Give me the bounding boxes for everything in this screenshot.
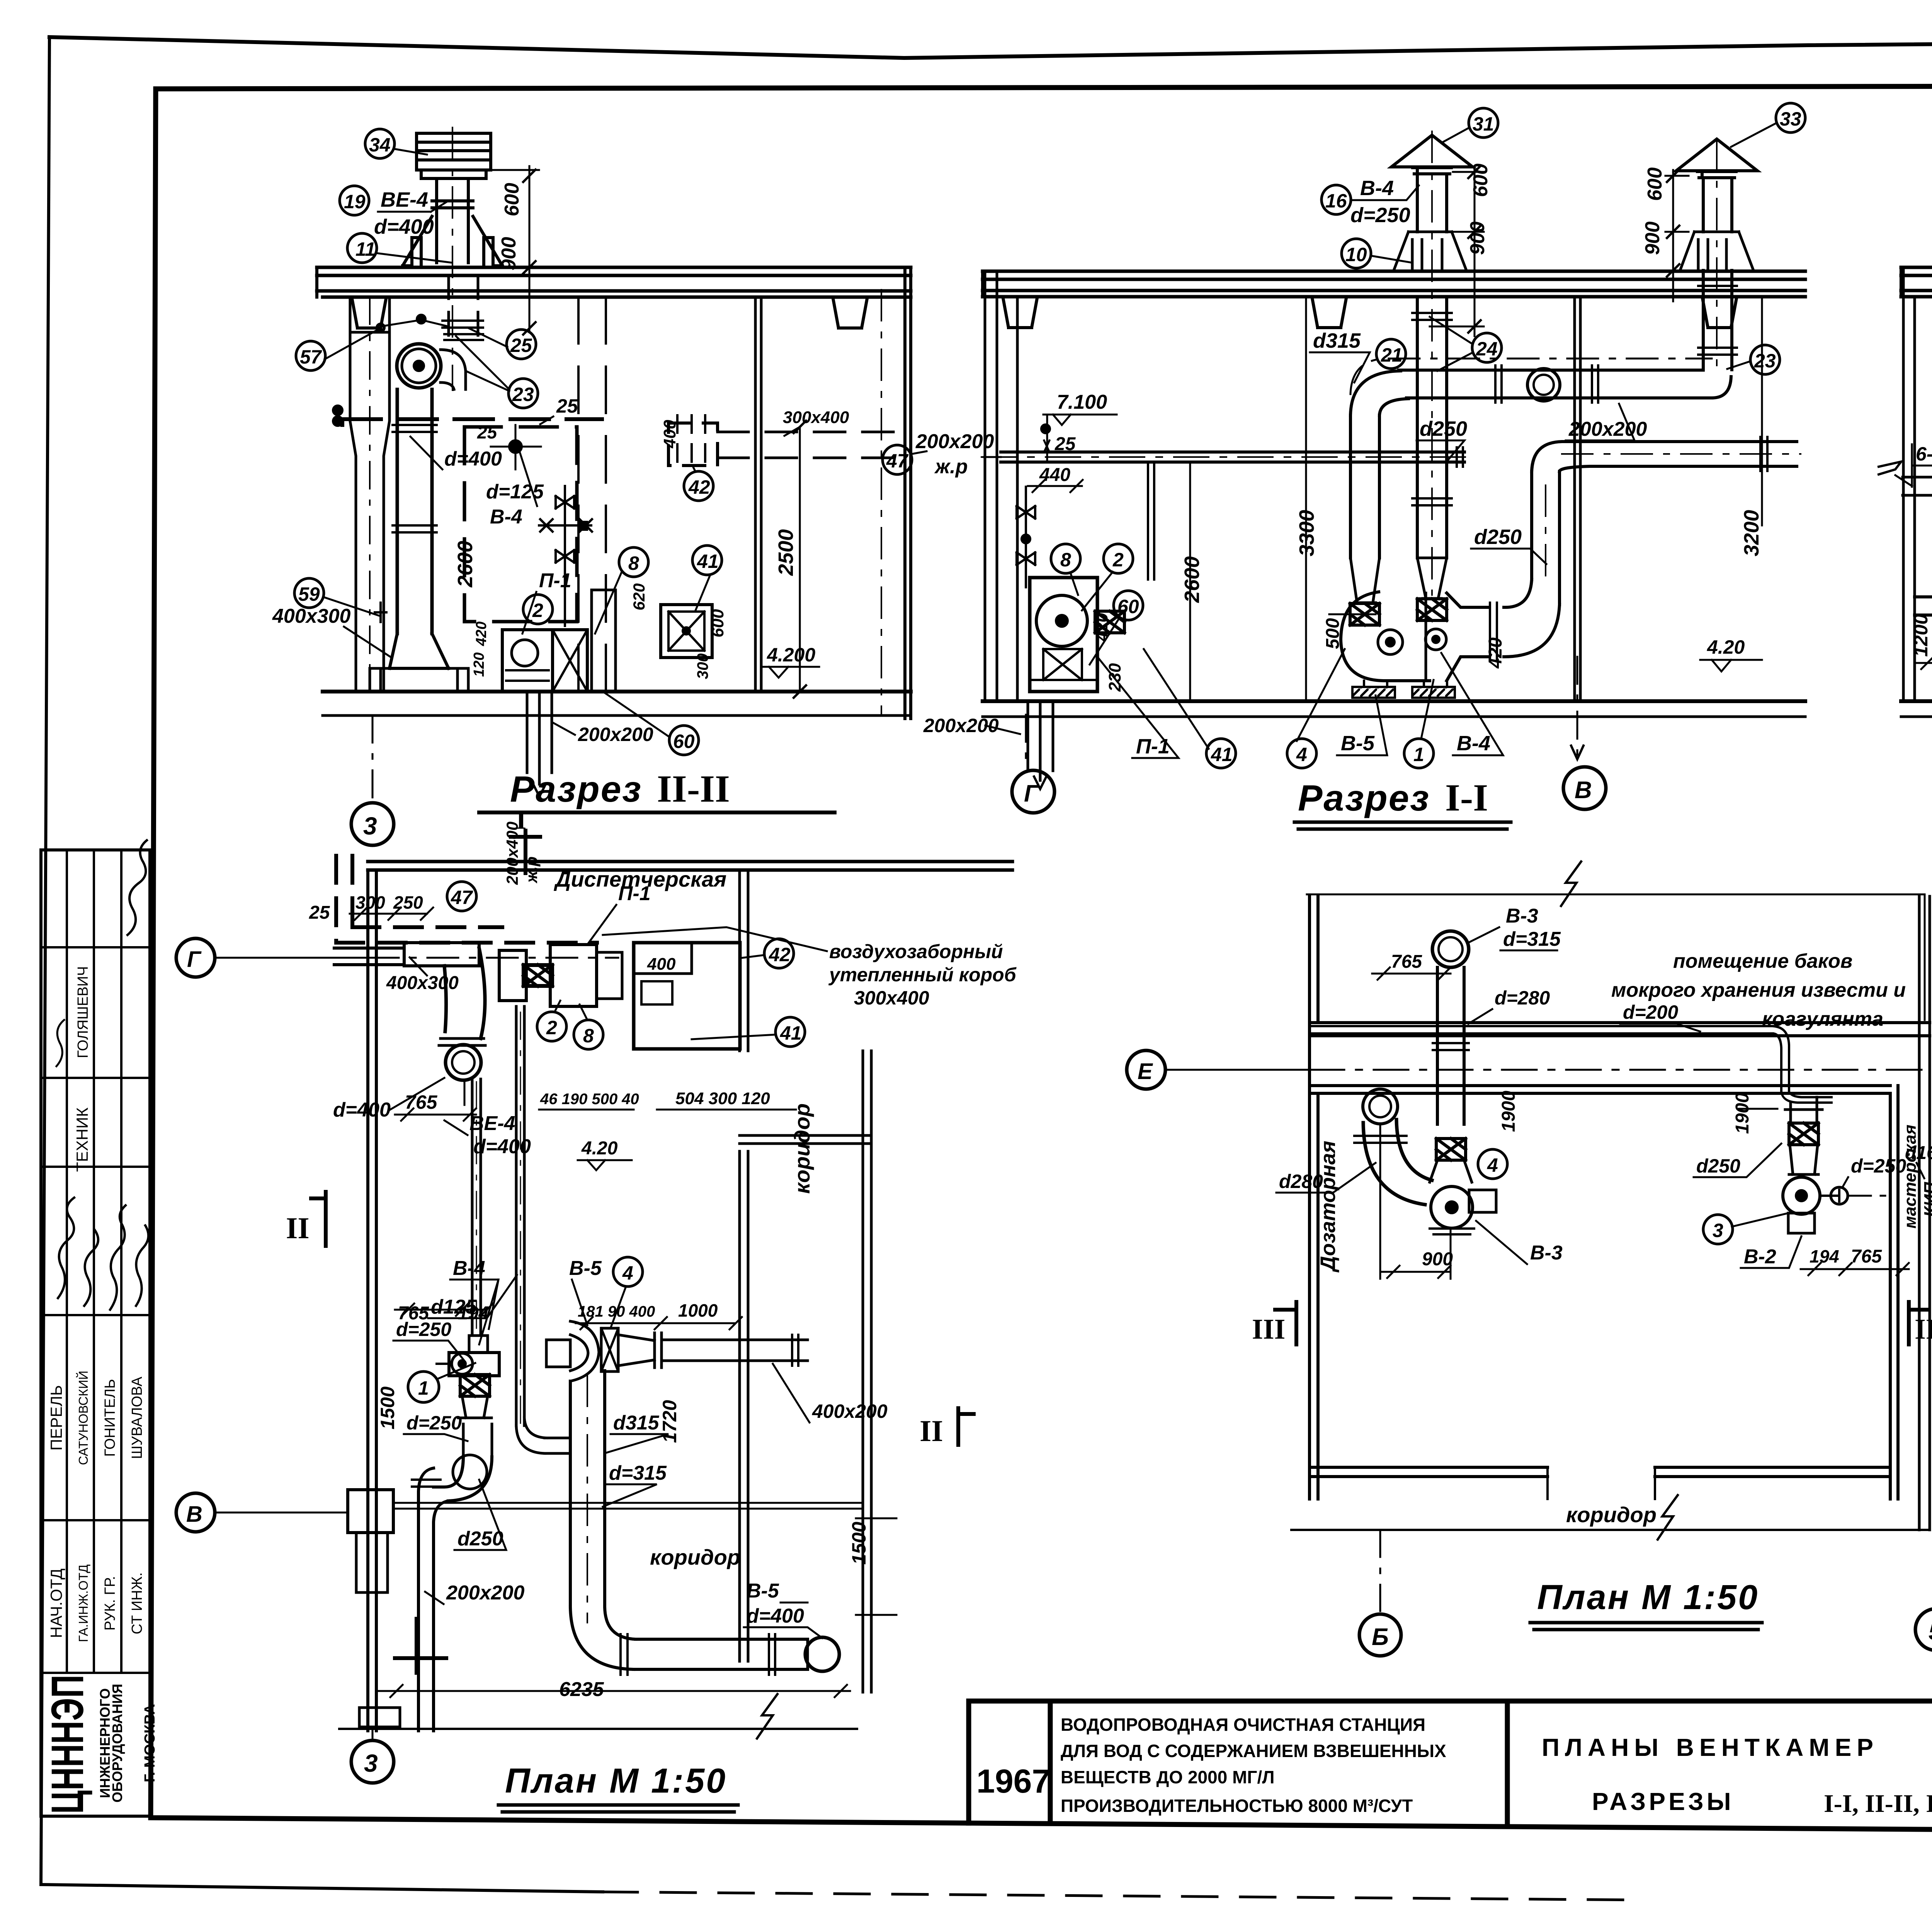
svg-text:В: В	[186, 1502, 202, 1527]
svg-text:III: III	[1915, 1314, 1932, 1345]
sheet outer edge top	[49, 37, 1932, 58]
svg-text:6-500: 6-500	[1916, 443, 1932, 465]
svg-text:ПЕРЕЛЬ: ПЕРЕЛЬ	[47, 1385, 65, 1450]
svg-text:765: 765	[405, 1091, 438, 1113]
stack axes dash-dot	[1432, 131, 1717, 595]
svg-text:420: 420	[1092, 613, 1111, 642]
second riser to BE-4 elbow	[472, 1079, 481, 1335]
900 dim bottom	[1915, 657, 1932, 669]
svg-text:2600: 2600	[454, 541, 477, 588]
callout 10	[1342, 239, 1371, 268]
svg-text:ГА.ИНЖ.ОТД: ГА.ИНЖ.ОТД	[76, 1564, 90, 1642]
svg-text:200x200: 200x200	[446, 1582, 525, 1604]
svg-text:В-4: В-4	[1360, 177, 1394, 200]
duct 200x200 zh.r horizontal	[1001, 452, 1464, 462]
svg-text:600: 600	[1644, 167, 1666, 201]
svg-text:23: 23	[512, 384, 534, 405]
cowl 33 (B-5 d400)	[1676, 139, 1757, 178]
stack of BE-4	[437, 178, 468, 263]
svg-text:d315: d315	[1313, 329, 1361, 352]
roof slab lines	[317, 267, 911, 297]
svg-text:1000: 1000	[678, 1300, 718, 1320]
svg-text:4: 4	[622, 1262, 633, 1284]
G axis	[176, 938, 215, 977]
svg-text:В-4: В-4	[453, 1257, 485, 1280]
svg-text:Б: Б	[1372, 1624, 1389, 1650]
svg-text:300: 300	[694, 653, 711, 679]
dashed chamber rectangle	[464, 427, 577, 622]
dim string right of cowl	[491, 166, 539, 332]
top dim line	[1307, 894, 1925, 896]
d200 pipe elbow right	[1773, 1026, 1789, 1091]
svg-text:Дозаторная: Дозаторная	[1316, 1141, 1340, 1273]
svg-text:400x300: 400x300	[386, 973, 459, 993]
svg-text:В-2: В-2	[1744, 1246, 1776, 1268]
svg-text:3: 3	[1713, 1220, 1723, 1241]
callout 33	[1776, 103, 1805, 133]
bottom cone + base	[389, 634, 449, 668]
svg-text:3300: 3300	[1295, 510, 1318, 556]
svg-text:утепленный короб: утепленный короб	[828, 964, 1017, 986]
svg-text:300x400: 300x400	[783, 408, 849, 427]
svg-text:23: 23	[1754, 350, 1776, 372]
svg-text:400x200: 400x200	[812, 1400, 888, 1422]
svg-text:В-5: В-5	[569, 1257, 602, 1280]
svg-text:I-I: I-I	[1445, 776, 1488, 819]
dim string right of cowl31	[1430, 166, 1484, 336]
svg-text:СТ ИНЖ.: СТ ИНЖ.	[129, 1572, 145, 1634]
svg-text:2: 2	[1112, 549, 1124, 571]
callout 31	[1469, 108, 1498, 138]
svg-text:1900: 1900	[1732, 1093, 1753, 1134]
stamp texts	[47, 966, 145, 1642]
svg-text:41: 41	[780, 1022, 802, 1044]
svg-text:Г: Г	[1024, 780, 1040, 807]
grille 41	[692, 546, 722, 575]
svg-text:765: 765	[1851, 1246, 1882, 1267]
right walls	[1890, 1086, 1898, 1499]
svg-text:31: 31	[1473, 113, 1494, 135]
svg-text:ВЕЩЕСТВ ДО 2000 МГ/Л: ВЕЩЕСТВ ДО 2000 МГ/Л	[1061, 1767, 1275, 1787]
axes	[1025, 715, 1027, 767]
svg-text:4: 4	[1296, 744, 1307, 765]
below floor duct + 200x200	[527, 692, 552, 784]
E axis	[1127, 1050, 1165, 1089]
svg-text:d250: d250	[1420, 417, 1467, 440]
svg-text:d315: d315	[613, 1412, 660, 1434]
callout 16 + B-4 d=250	[1321, 185, 1351, 214]
svg-text:d=400: d=400	[374, 215, 434, 238]
roof slab	[1901, 267, 1932, 297]
svg-text:41: 41	[1211, 744, 1233, 765]
svg-text:I-I, II-II, III-III.: I-I, II-II, III-III.	[1824, 1790, 1932, 1818]
svg-text:1200: 1200	[1910, 614, 1932, 657]
svg-text:НАЧ.ОТД: НАЧ.ОТД	[47, 1569, 65, 1638]
svg-text:В-3: В-3	[1506, 905, 1538, 927]
stamp bottom org cell	[42, 1675, 158, 1814]
svg-text:24: 24	[1476, 338, 1498, 360]
floor	[323, 690, 911, 693]
svg-text:42: 42	[688, 476, 710, 498]
svg-text:Е: Е	[1138, 1059, 1153, 1084]
svg-text:КИП: КИП	[1921, 1181, 1932, 1217]
svg-text:4.20: 4.20	[581, 1138, 618, 1159]
section I mark top	[511, 831, 540, 873]
svg-text:d250: d250	[457, 1528, 503, 1550]
dim verticals	[1190, 297, 1762, 701]
svg-text:ДЛЯ ВОД С СОДЕРЖАНИЕМ ВЗВЕШЕНН: ДЛЯ ВОД С СОДЕРЖАНИЕМ ВЗВЕШЕННЫХ	[1061, 1741, 1446, 1761]
riser tapers/flex B-5	[1350, 558, 1379, 603]
svg-text:46 190 500 40: 46 190 500 40	[540, 1091, 639, 1108]
title block	[969, 1701, 1932, 1834]
svg-text:400: 400	[647, 955, 676, 974]
B-3 duct down	[1437, 967, 1464, 1124]
svg-text:коридор: коридор	[1566, 1502, 1656, 1527]
svg-text:d160: d160	[1905, 1143, 1932, 1163]
svg-text:6235: 6235	[559, 1678, 604, 1701]
B-4 bottom elbow to descending duct	[434, 1457, 492, 1501]
svg-text:В-5: В-5	[747, 1580, 779, 1602]
svg-text:47: 47	[886, 450, 909, 472]
svg-text:25: 25	[477, 422, 498, 442]
B-3 roof stack circles	[1432, 931, 1469, 967]
svg-text:600: 600	[1469, 163, 1492, 197]
fan bases	[1352, 687, 1395, 698]
d125 riser from P-1 down	[516, 1006, 524, 1426]
axes bottom	[1380, 1530, 1932, 1611]
svg-text:ВОДОПРОВОДНАЯ ОЧИСТНАЯ СТАНЦИЯ: ВОДОПРОВОДНАЯ ОЧИСТНАЯ СТАНЦИЯ	[1061, 1715, 1425, 1735]
bottom boundary + break	[339, 1728, 857, 1730]
inner top wall	[1310, 1086, 1890, 1093]
svg-text:П-1: П-1	[539, 569, 571, 592]
svg-text:ТЕХНИК: ТЕХНИК	[73, 1107, 91, 1172]
stamp column grid	[41, 850, 150, 1816]
svg-text:5: 5	[1929, 1618, 1932, 1645]
svg-text:3: 3	[364, 1749, 378, 1777]
svg-text:ж.р: ж.р	[522, 857, 541, 884]
roof T-bracket left	[341, 297, 397, 328]
svg-text:мокрого хранения извести и: мокрого хранения извести и	[1611, 979, 1906, 1001]
svg-text:900: 900	[1641, 221, 1664, 255]
callout 19 + BE-4 d=400	[340, 186, 369, 215]
svg-text:2500: 2500	[774, 529, 798, 576]
svg-text:1900: 1900	[1498, 1091, 1519, 1132]
svg-text:d=250: d=250	[406, 1412, 462, 1434]
svg-text:2600: 2600	[1180, 556, 1204, 603]
left wall	[368, 870, 376, 1731]
svg-text:1: 1	[1413, 744, 1424, 765]
svg-text:19: 19	[344, 191, 366, 212]
svg-text:59: 59	[298, 583, 320, 605]
d250 loop: elbow up then right	[1504, 580, 1560, 657]
svg-text:25: 25	[309, 902, 330, 923]
svg-text:60: 60	[1117, 596, 1139, 617]
svg-text:200x200: 200x200	[915, 430, 994, 453]
section II marks	[311, 1192, 326, 1246]
svg-text:900: 900	[498, 237, 520, 270]
d315 riser down	[570, 1371, 605, 1607]
svg-text:8: 8	[583, 1025, 594, 1047]
P-1 unit	[1030, 578, 1097, 692]
svg-text:181 90 400: 181 90 400	[578, 1303, 655, 1320]
wire from ceiling pt	[381, 320, 448, 326]
left wall / bottom walls	[1310, 896, 1318, 1499]
svg-text:2: 2	[546, 1017, 557, 1038]
callout 34	[365, 129, 395, 158]
svg-text:ГОЛЯШЕВИЧ: ГОЛЯШЕВИЧ	[75, 966, 91, 1058]
svg-text:d=400: d=400	[747, 1605, 804, 1627]
svg-text:420: 420	[473, 622, 490, 646]
below floor duct	[1028, 701, 1053, 780]
roof T-bracket right	[822, 297, 878, 328]
svg-text:4.200: 4.200	[767, 644, 815, 666]
svg-text:21: 21	[1381, 344, 1403, 366]
svg-text:Разрез: Разрез	[510, 769, 642, 810]
svg-text:ОБОРУДОВАНИЯ: ОБОРУДОВАНИЯ	[109, 1684, 125, 1803]
stamp signatures squiggles	[58, 1198, 74, 1298]
svg-text:3: 3	[363, 812, 377, 840]
callouts 57 25 23	[296, 341, 325, 370]
svg-text:П-1: П-1	[618, 882, 651, 905]
svg-text:План М 1:50: План М 1:50	[1537, 1578, 1759, 1617]
B-5 chain right	[546, 1340, 570, 1367]
svg-text:ж.р: ж.р	[934, 455, 968, 478]
svg-text:ШУВАЛОВА: ШУВАЛОВА	[129, 1377, 145, 1459]
svg-text:РУК. ГР.: РУК. ГР.	[102, 1576, 118, 1630]
svg-text:34: 34	[369, 134, 391, 156]
svg-text:Г: Г	[187, 947, 202, 972]
svg-text:d=400: d=400	[333, 1099, 391, 1121]
svg-text:РАЗРЕЗЫ: РАЗРЕЗЫ	[1592, 1788, 1734, 1815]
riser from P-1 to duct	[1148, 462, 1154, 580]
svg-text:300: 300	[355, 892, 385, 913]
floor	[1901, 699, 1932, 703]
svg-text:200x200: 200x200	[578, 724, 653, 745]
partition walls	[578, 297, 606, 692]
P-1 unit plan at top	[499, 950, 526, 1001]
floor	[983, 699, 1805, 703]
svg-text:коридор: коридор	[650, 1545, 740, 1569]
svg-text:16: 16	[1325, 190, 1347, 212]
svg-text:620: 620	[630, 583, 648, 610]
axis 3 circle	[372, 1731, 374, 1740]
svg-text:11: 11	[355, 238, 376, 260]
sheet outer edge left	[41, 37, 49, 1885]
svg-text:ЦНННЭП: ЦНННЭП	[42, 1675, 93, 1814]
B-2 riser elbow + chain	[1785, 1097, 1822, 1123]
svg-text:120: 120	[471, 653, 487, 677]
inner wall at B axis	[1575, 297, 1580, 701]
fan BE4 scroll	[397, 344, 441, 388]
svg-text:d=250: d=250	[1851, 1155, 1906, 1177]
axis 3	[372, 715, 374, 802]
svg-text:420: 420	[1485, 637, 1506, 669]
dim string left of cowl33	[1665, 170, 1689, 301]
svg-text:ПРОИЗВОДИТЕЛЬНОСТЬЮ 8000 М³/СУ: ПРОИЗВОДИТЕЛЬНОСТЬЮ 8000 М³/СУТ	[1061, 1796, 1413, 1816]
svg-text:1720: 1720	[659, 1400, 680, 1443]
corridor walls right	[740, 870, 748, 1661]
svg-text:600: 600	[501, 183, 523, 216]
dashed duct through roof to fan	[449, 275, 478, 342]
svg-text:4: 4	[1487, 1154, 1498, 1176]
main duct d400 down	[397, 389, 432, 634]
svg-text:1: 1	[418, 1377, 429, 1399]
top wall	[368, 862, 1012, 870]
callout 11	[347, 233, 377, 263]
cone skirt on roof	[403, 216, 502, 266]
svg-text:В-4: В-4	[1457, 732, 1490, 755]
svg-text:П-1: П-1	[1136, 735, 1170, 758]
svg-text:504 300 120: 504 300 120	[675, 1089, 770, 1108]
B axis	[176, 1493, 215, 1532]
air chamber rect	[634, 943, 740, 1049]
roof slab	[983, 271, 1805, 297]
svg-text:II-II: II-II	[657, 767, 730, 810]
svg-text:ВЕ-4: ВЕ-4	[381, 188, 428, 211]
svg-text:d250: d250	[1474, 525, 1522, 549]
left flange circle + elbow into fan	[1363, 1089, 1398, 1124]
svg-text:194: 194	[1810, 1246, 1839, 1266]
callouts 21 24 23 on ducts	[1376, 339, 1406, 369]
svg-text:1500: 1500	[848, 1522, 870, 1565]
valves cluster	[564, 486, 566, 626]
svg-text:d=315: d=315	[609, 1462, 667, 1484]
svg-text:47: 47	[451, 887, 473, 908]
callouts bottom	[1051, 544, 1080, 573]
svg-text:2: 2	[532, 600, 543, 621]
47 circle + dims top	[447, 882, 476, 911]
svg-text:41: 41	[697, 551, 719, 572]
svg-text:d=400: d=400	[444, 448, 502, 470]
svg-text:Г. МОСКВА: Г. МОСКВА	[142, 1704, 158, 1783]
svg-text:ГОНИТЕЛЬ: ГОНИТЕЛЬ	[102, 1379, 118, 1456]
column axis dash	[369, 297, 371, 692]
svg-text:В-4: В-4	[490, 506, 522, 528]
svg-text:II: II	[920, 1414, 943, 1448]
fans B-5 B-4	[1341, 592, 1430, 681]
cowl 31 (B-4 d250)	[1391, 135, 1473, 174]
top outer wall + d200 pipe	[1310, 1023, 1930, 1036]
bottom elbow + horizontal to B-5 outlet	[570, 1607, 636, 1669]
svg-text:300x400: 300x400	[854, 987, 929, 1009]
svg-text:33: 33	[1780, 108, 1801, 130]
svg-text:60: 60	[673, 731, 695, 752]
svg-text:57: 57	[300, 346, 322, 368]
svg-text:План М 1:50: План М 1:50	[505, 1762, 727, 1800]
svg-text:помещение баков: помещение баков	[1673, 950, 1852, 972]
svg-text:воздухозаборный: воздухозаборный	[829, 941, 1003, 962]
left column I-beam	[350, 297, 389, 692]
svg-text:В-5: В-5	[1341, 732, 1375, 755]
svg-text:25: 25	[510, 335, 532, 356]
svg-text:7.100: 7.100	[1057, 391, 1107, 413]
svg-text:Разрез: Разрез	[1298, 778, 1430, 819]
svg-text:САТУНОВСКИЙ: САТУНОВСКИЙ	[76, 1371, 90, 1465]
d315 riser + elbow + horizontal run	[1350, 415, 1379, 558]
svg-text:d=250: d=250	[1350, 204, 1410, 227]
B-3 flex + fan	[1436, 1139, 1466, 1160]
left wall	[985, 271, 1017, 701]
svg-text:d250: d250	[1696, 1155, 1740, 1177]
svg-text:d=125: d=125	[486, 481, 544, 503]
svg-text:II: II	[286, 1211, 310, 1245]
dashed grille 42 + duct 300x400	[668, 423, 718, 466]
svg-text:d=315: d=315	[1503, 928, 1561, 950]
svg-text:25: 25	[556, 395, 578, 417]
intake dashed line 25	[342, 419, 602, 425]
svg-text:3200: 3200	[1740, 510, 1763, 556]
svg-text:10: 10	[1345, 244, 1367, 265]
svg-text:коридор: коридор	[790, 1103, 814, 1194]
section III marks	[1275, 1302, 1296, 1344]
svg-text:8: 8	[628, 552, 639, 574]
svg-text:III: III	[1252, 1314, 1285, 1345]
cowl box BE-4 pos34	[417, 133, 491, 170]
sheet outer edge bottom	[41, 1885, 603, 1892]
svg-text:d=280: d=280	[1495, 987, 1550, 1009]
svg-text:d=200: d=200	[1623, 1001, 1678, 1023]
svg-text:500: 500	[1323, 618, 1343, 649]
dashed intake box	[336, 856, 352, 943]
svg-text:600: 600	[708, 609, 727, 637]
svg-text:400: 400	[660, 420, 679, 449]
svg-text:200x200: 200x200	[1568, 418, 1647, 440]
svg-text:900: 900	[1466, 221, 1489, 255]
svg-text:d=250: d=250	[396, 1319, 451, 1340]
svg-text:900: 900	[1422, 1249, 1453, 1270]
svg-text:765: 765	[1391, 952, 1422, 972]
svg-text:1967: 1967	[976, 1763, 1050, 1800]
svg-text:4.20: 4.20	[1707, 636, 1745, 658]
svg-text:1500: 1500	[377, 1387, 398, 1429]
svg-text:ПЛАНЫ ВЕНТКАМЕР: ПЛАНЫ ВЕНТКАМЕР	[1542, 1733, 1879, 1761]
svg-text:В-3: В-3	[1530, 1242, 1563, 1264]
svg-text:В: В	[1575, 777, 1592, 804]
400x300 duct at G axis + elbows	[334, 948, 404, 965]
B-4 riser down to fan	[1417, 297, 1447, 558]
left wall/column	[1903, 267, 1915, 701]
svg-text:200x400: 200x400	[503, 821, 521, 885]
svg-text:8: 8	[1060, 549, 1071, 571]
svg-text:42: 42	[769, 944, 791, 965]
